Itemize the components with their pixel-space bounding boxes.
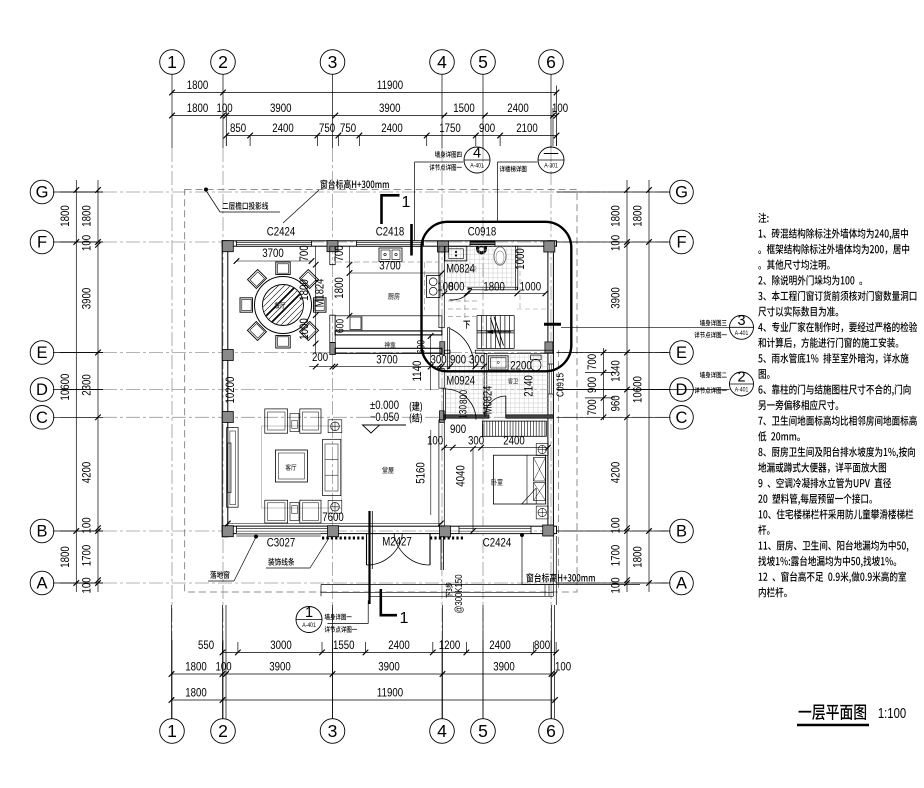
svg-text:2100: 2100 bbox=[516, 122, 538, 135]
svg-text:850: 850 bbox=[230, 122, 246, 135]
label M1824 rotated bbox=[313, 279, 326, 308]
staircase break line bbox=[491, 317, 504, 348]
svg-text:550: 550 bbox=[198, 639, 214, 652]
svg-text:2400: 2400 bbox=[388, 639, 410, 652]
axis bubbles 1-6 bottom bbox=[160, 719, 564, 744]
svg-text:5: 5 bbox=[478, 52, 488, 72]
svg-text:1800: 1800 bbox=[59, 205, 72, 227]
dining width dim 3700 bbox=[234, 247, 315, 264]
eave projection label bbox=[222, 202, 268, 210]
svg-text:G: G bbox=[36, 184, 49, 202]
guest bathroom floor tile grid bbox=[444, 353, 548, 414]
shrine label bbox=[385, 342, 396, 349]
svg-text:A: A bbox=[36, 575, 47, 593]
kitchen west rotated dims 700 1800 bbox=[333, 245, 352, 318]
second floor eave projection dashed outline bbox=[185, 190, 577, 593]
guest bath toilet bbox=[531, 355, 542, 371]
svg-text:3900: 3900 bbox=[379, 102, 401, 115]
svg-text:1700: 1700 bbox=[609, 545, 622, 567]
svg-text:10200: 10200 bbox=[224, 377, 237, 404]
svg-text:2400: 2400 bbox=[381, 122, 403, 135]
top dimension chain row 2 (1800 100 3900 3900 1500 2400 100) bbox=[169, 102, 568, 118]
svg-text:1: 1 bbox=[167, 721, 177, 741]
svg-text:M0824: M0824 bbox=[481, 386, 494, 415]
svg-text:A: A bbox=[676, 575, 687, 593]
bedroom west wall grid4 bbox=[439, 420, 444, 526]
interior wall grid3 upper segment bbox=[330, 246, 335, 265]
svg-text:800: 800 bbox=[534, 639, 550, 652]
hall north wall (shrine south) bbox=[335, 348, 442, 353]
column grid2/E bbox=[222, 350, 233, 361]
kitchen counter dashed edge bbox=[336, 262, 440, 310]
column grid3 at shrine bbox=[330, 343, 336, 355]
drawing title bbox=[799, 704, 866, 720]
top bathroom east wall bbox=[515, 246, 517, 290]
exterior wall right along grid 6 bbox=[548, 241, 554, 534]
kitchen south wall bbox=[335, 331, 442, 335]
dim 900 corridor bbox=[450, 423, 466, 436]
dotted decor strip right of entry bbox=[430, 537, 465, 540]
window C0918 top wall bbox=[470, 241, 495, 246]
porch wall stub below grid4 bbox=[441, 536, 444, 570]
window C2418 top wall bbox=[357, 241, 424, 246]
svg-text:3700: 3700 bbox=[376, 353, 398, 366]
dim 200 at shrine left bbox=[309, 351, 335, 369]
svg-text:800: 800 bbox=[448, 280, 464, 293]
right dimension mini chain (700 900 700) bbox=[585, 348, 615, 420]
column grid6/E half bbox=[545, 342, 553, 353]
svg-text:5160: 5160 bbox=[414, 462, 427, 484]
column grid2/B bbox=[222, 526, 233, 537]
porch steps right bbox=[545, 585, 549, 597]
dim 2200 guest bath bbox=[510, 359, 532, 372]
svg-text:@300K150: @300K150 bbox=[453, 574, 464, 613]
svg-text:E: E bbox=[676, 344, 687, 362]
stair west wall grid4 middle segment bbox=[439, 369, 444, 389]
column grid3/F bbox=[327, 241, 338, 252]
svg-text:1000: 1000 bbox=[514, 248, 527, 270]
callout 4 leader line bbox=[415, 162, 464, 241]
dim 1000 rotated top bath right bbox=[514, 248, 527, 270]
callout bubble A-301 stairs bbox=[538, 146, 564, 174]
kitchen lower counter with basin bbox=[335, 316, 442, 331]
svg-text:C2418: C2418 bbox=[376, 225, 404, 238]
left dimension outer chain (1800 10600 1800) bbox=[59, 180, 79, 592]
svg-text:1800: 1800 bbox=[185, 686, 207, 699]
living room label bbox=[286, 464, 297, 471]
svg-text:700: 700 bbox=[586, 354, 599, 370]
column grid4 at D bbox=[439, 411, 444, 423]
axis bubbles A-G right bbox=[670, 180, 694, 595]
svg-text:100: 100 bbox=[215, 660, 231, 673]
window label C2424 bottom bbox=[483, 536, 511, 549]
svg-text:7600: 7600 bbox=[322, 511, 344, 524]
svg-text:1800: 1800 bbox=[59, 546, 72, 568]
floor lamp top bbox=[328, 420, 342, 433]
svg-text:1800: 1800 bbox=[483, 280, 505, 293]
svg-text:F: F bbox=[676, 234, 686, 252]
column grid2/C bbox=[222, 412, 233, 423]
guest bath sink bbox=[488, 356, 508, 370]
exterior wall bottom along B bbox=[222, 526, 556, 533]
svg-text:3900: 3900 bbox=[609, 287, 622, 309]
label C0915 rotated right wall bbox=[553, 373, 565, 397]
svg-text:4: 4 bbox=[437, 52, 447, 72]
svg-text:100: 100 bbox=[80, 577, 93, 593]
window label C2418 top bbox=[376, 225, 404, 238]
sofa side table bottom bbox=[290, 503, 299, 521]
svg-text:900: 900 bbox=[586, 377, 599, 393]
dim 4040 rotated bedroom bbox=[454, 446, 475, 534]
sill height note top bbox=[321, 179, 389, 188]
bottom dimension chain row 1 (550 3000 1550 2400 1200 2400 800) bbox=[198, 639, 559, 655]
sill height note bottom bbox=[527, 573, 595, 582]
dim 3700 under shrine bbox=[332, 353, 442, 369]
svg-text:3900: 3900 bbox=[493, 660, 515, 673]
exterior wall top along F bbox=[222, 241, 556, 246]
svg-text:1750: 1750 bbox=[439, 122, 461, 135]
floor lamp bottom bbox=[328, 500, 342, 513]
callout bubble 3/A-401 right bbox=[730, 313, 754, 340]
porch step note rotated bbox=[453, 574, 464, 613]
svg-text:1340: 1340 bbox=[609, 360, 622, 382]
staircase treads bbox=[477, 316, 514, 349]
svg-text:100: 100 bbox=[216, 102, 232, 115]
guest bath label bbox=[508, 378, 518, 384]
staircase direction arrow and down label bbox=[487, 330, 511, 334]
TV cabinet bbox=[227, 428, 239, 508]
svg-text:A-401: A-401 bbox=[735, 387, 748, 394]
kitchen sink bbox=[379, 248, 402, 262]
notes text block bbox=[758, 213, 768, 223]
svg-text:B: B bbox=[676, 523, 687, 541]
callout A-301 leader bbox=[497, 162, 537, 222]
exterior wall left along grid 2 bbox=[222, 241, 228, 537]
dim row 300 900 300 under stair bbox=[430, 353, 486, 369]
svg-text:5: 5 bbox=[478, 721, 488, 741]
svg-text:1550: 1550 bbox=[333, 639, 355, 652]
svg-text:100: 100 bbox=[609, 235, 622, 251]
svg-text:—: — bbox=[544, 146, 559, 162]
svg-text:1140: 1140 bbox=[411, 361, 424, 382]
svg-text:100: 100 bbox=[552, 102, 568, 115]
stair detail rounded bubble bbox=[422, 222, 572, 371]
svg-text:3: 3 bbox=[328, 52, 338, 72]
svg-text:130: 130 bbox=[458, 404, 470, 419]
decorative sill band under C3027 bbox=[237, 534, 321, 537]
window label C2424 top bbox=[267, 225, 295, 238]
svg-text:750: 750 bbox=[340, 122, 356, 135]
sofa single bottom-left bbox=[265, 500, 288, 523]
sill note top leader bbox=[283, 190, 319, 223]
svg-text:4: 4 bbox=[473, 146, 481, 162]
top bathroom toilet bbox=[494, 247, 506, 265]
top dimension chain row 3 (850 2400 750 750 2400 1750 900 2100) bbox=[224, 122, 560, 146]
bottom extension lines bbox=[172, 605, 555, 719]
svg-text:A-301: A-301 bbox=[544, 163, 557, 170]
svg-text:D: D bbox=[36, 381, 48, 399]
svg-text:E: E bbox=[36, 344, 47, 362]
svg-text:C: C bbox=[676, 409, 688, 427]
svg-text:3: 3 bbox=[328, 721, 338, 741]
svg-text:1:100: 1:100 bbox=[878, 705, 906, 722]
svg-text:800: 800 bbox=[458, 389, 470, 404]
svg-text:3: 3 bbox=[737, 313, 745, 329]
svg-text:C0915: C0915 bbox=[553, 373, 565, 397]
svg-text:2400: 2400 bbox=[503, 434, 525, 447]
svg-text:200: 200 bbox=[312, 351, 328, 364]
dims 800 300 rotated corridor door bbox=[458, 389, 471, 419]
svg-text:750: 750 bbox=[319, 122, 335, 135]
svg-text:C2424: C2424 bbox=[267, 225, 295, 238]
svg-text:−0.050: −0.050 bbox=[370, 411, 399, 424]
svg-text:100: 100 bbox=[80, 235, 93, 251]
svg-text:3900: 3900 bbox=[270, 102, 292, 115]
column grid2/F bbox=[222, 241, 233, 252]
living room rug outline bbox=[262, 426, 342, 508]
callout bubble 2/A-401 right bbox=[730, 370, 754, 397]
bath north wall / stair south wall bbox=[444, 350, 553, 353]
svg-text:700: 700 bbox=[586, 399, 599, 415]
guest bath west wall bbox=[484, 353, 487, 414]
svg-text:960: 960 bbox=[609, 395, 622, 411]
door M0824 top bathroom arc bbox=[450, 289, 472, 300]
svg-text:M1824: M1824 bbox=[313, 279, 326, 308]
svg-text:3900: 3900 bbox=[269, 660, 291, 673]
svg-text:B: B bbox=[36, 523, 47, 541]
label M0924 corridor bbox=[446, 374, 475, 387]
callout bubble 1/A-401 bottom bbox=[296, 605, 322, 633]
top bathroom label bbox=[467, 266, 476, 271]
svg-text:A-401: A-401 bbox=[302, 623, 315, 630]
bed bbox=[493, 455, 545, 504]
svg-text:3700: 3700 bbox=[262, 247, 284, 260]
window label C3027 bbox=[267, 536, 295, 549]
entry door M2427 double leaves and arcs bbox=[367, 533, 431, 565]
svg-text:2400: 2400 bbox=[272, 122, 294, 135]
svg-text:2: 2 bbox=[218, 721, 228, 741]
kitchen width dim 3700 bbox=[347, 259, 445, 275]
svg-text:6: 6 bbox=[546, 52, 556, 72]
svg-text:1800: 1800 bbox=[187, 102, 209, 115]
svg-text:C: C bbox=[36, 409, 48, 427]
svg-text:4200: 4200 bbox=[609, 462, 622, 484]
svg-text:2300: 2300 bbox=[80, 374, 93, 396]
interior wall grid3 lower segment bbox=[330, 315, 335, 342]
nightstand lamp top bbox=[536, 444, 548, 456]
kitchen stove with burners bbox=[427, 276, 441, 298]
label M0824 rotated bedroom door bbox=[481, 386, 494, 415]
column grid4/B bbox=[440, 526, 451, 537]
column grid4/F bbox=[438, 241, 449, 252]
svg-text:11900: 11900 bbox=[377, 686, 403, 699]
column grid4 at E bbox=[440, 342, 445, 355]
svg-text:1800: 1800 bbox=[631, 546, 644, 568]
sofa single bottom-right bbox=[300, 500, 321, 523]
bedroom north wall bbox=[444, 415, 553, 418]
callout 2 leader line bbox=[557, 389, 730, 391]
svg-text:1800: 1800 bbox=[631, 205, 644, 227]
right dimension outer chain (1800 10600 1800) bbox=[631, 180, 651, 592]
staircase center rail bbox=[477, 331, 514, 333]
svg-text:1800: 1800 bbox=[333, 277, 346, 299]
stair west wall grid4 upper bbox=[439, 246, 444, 328]
dim 2140 rotated guest bath bbox=[523, 375, 536, 397]
dim 600 rotated at kitchen counter bbox=[335, 318, 347, 333]
extension doubles near grid2 and grid6 top bbox=[226, 86, 556, 147]
svg-text:600: 600 bbox=[335, 318, 347, 333]
window label C0918 bbox=[468, 225, 496, 238]
right extension lines bbox=[557, 192, 669, 583]
decor trim label bbox=[268, 558, 294, 566]
svg-text:2: 2 bbox=[218, 52, 228, 72]
svg-text:300: 300 bbox=[468, 434, 484, 447]
svg-text:700: 700 bbox=[298, 245, 311, 261]
window C3027 bottom wall bbox=[237, 526, 330, 533]
svg-text:1: 1 bbox=[167, 52, 177, 72]
svg-text:M0924: M0924 bbox=[446, 374, 475, 387]
svg-text:1500: 1500 bbox=[453, 102, 475, 115]
svg-text:11900: 11900 bbox=[377, 79, 403, 92]
svg-text:900: 900 bbox=[450, 423, 466, 436]
svg-text:300: 300 bbox=[430, 353, 446, 366]
door M0924 stair room leaf and arc bbox=[448, 328, 474, 369]
dining round table with glass hatch bbox=[229, 275, 337, 335]
svg-text:1000: 1000 bbox=[298, 318, 311, 340]
dining label bbox=[275, 302, 286, 308]
svg-text:1: 1 bbox=[400, 610, 409, 627]
svg-text:1000: 1000 bbox=[520, 280, 542, 293]
bedroom closet with hatch bbox=[482, 421, 546, 436]
svg-text:F: F bbox=[37, 234, 47, 252]
dining chairs around table bbox=[240, 262, 326, 348]
sofa single top-left bbox=[265, 409, 288, 433]
svg-text:2: 2 bbox=[737, 370, 745, 386]
label M2427 entry bbox=[382, 535, 412, 548]
callout 1 leader line bbox=[328, 601, 369, 624]
svg-text:1: 1 bbox=[305, 605, 313, 621]
svg-text:3000: 3000 bbox=[270, 639, 292, 652]
column grid6/B bbox=[543, 525, 554, 536]
svg-text:1800: 1800 bbox=[187, 79, 209, 92]
hall label bbox=[382, 467, 393, 474]
sofa single top-right bbox=[300, 409, 321, 433]
axis bubbles A-G left bbox=[30, 180, 54, 595]
svg-text:G: G bbox=[675, 184, 688, 202]
svg-text:1800: 1800 bbox=[80, 205, 93, 227]
bedroom label bbox=[492, 479, 503, 486]
porch terrace lines bbox=[321, 536, 556, 605]
section cut line top bbox=[410, 224, 413, 256]
column grid3/B bbox=[328, 526, 339, 537]
callout bubble 4/A-401 top bbox=[464, 146, 490, 174]
svg-text:1200: 1200 bbox=[439, 639, 461, 652]
svg-text:D: D bbox=[676, 381, 688, 399]
window C0915 right wall bbox=[548, 364, 554, 394]
long sofa right bbox=[323, 439, 341, 495]
svg-text:300: 300 bbox=[469, 353, 485, 366]
right dimension inner chain (1800 100 3900 1340 960 4200 100 1700 100) bbox=[609, 180, 629, 594]
bottom dimension chain row 2 (1800 100 3900 3900 3900 100) bbox=[169, 660, 571, 676]
svg-text:1: 1 bbox=[402, 194, 411, 211]
section mark 1 top bbox=[382, 194, 411, 224]
bedroom top dim row 100 300 2400 bbox=[427, 434, 551, 450]
stair room dim row 100 800 1800 1000 bbox=[437, 280, 548, 296]
top bathroom floor tile grid bbox=[447, 246, 515, 287]
svg-text:4200: 4200 bbox=[80, 462, 93, 484]
label M0824 top bathroom bbox=[446, 262, 475, 275]
callout 3 leader line bbox=[544, 324, 730, 327]
svg-text:1800: 1800 bbox=[609, 205, 622, 227]
svg-text:1700: 1700 bbox=[80, 545, 93, 567]
svg-text:A-401: A-401 bbox=[735, 330, 748, 337]
window C2424 bottom wall (bedroom) bbox=[459, 526, 531, 533]
svg-text:3700: 3700 bbox=[379, 259, 401, 272]
svg-text:2140: 2140 bbox=[523, 375, 536, 397]
kitchen label bbox=[388, 293, 399, 300]
urinal top bathroom bbox=[476, 246, 486, 254]
section mark 1 bottom bbox=[381, 589, 409, 627]
door M0824 bedroom leaf and arc bbox=[485, 396, 506, 417]
dim 5160 rotated hall east bbox=[414, 430, 430, 515]
nightstand lamp bottom bbox=[536, 506, 548, 519]
dining east rotated dims 700 1800 1000 bbox=[298, 245, 318, 353]
bottom dimension chain row 3 (1800 11900) bbox=[169, 686, 558, 702]
svg-text:100: 100 bbox=[609, 577, 622, 593]
left dimension inner chain (1800 100 3900 2300 4200 100 1700 100) bbox=[80, 180, 100, 594]
svg-text:900: 900 bbox=[479, 122, 495, 135]
svg-text:1800: 1800 bbox=[298, 279, 311, 301]
svg-text:C2424: C2424 bbox=[483, 536, 511, 549]
level mark +-0.000 bbox=[363, 399, 407, 433]
svg-text:C0918: C0918 bbox=[468, 225, 496, 238]
svg-text:3900: 3900 bbox=[80, 288, 93, 310]
door M0924 corridor leaf and arc bbox=[443, 388, 476, 420]
svg-text:M0824: M0824 bbox=[446, 262, 475, 275]
svg-text:A-401: A-401 bbox=[470, 163, 483, 170]
dim 7600 hall bottom bbox=[225, 511, 444, 526]
svg-text:10600: 10600 bbox=[59, 374, 72, 401]
svg-text:700: 700 bbox=[333, 245, 346, 261]
coffee table bbox=[275, 450, 307, 482]
svg-text:M2427: M2427 bbox=[382, 535, 412, 548]
svg-text:2400: 2400 bbox=[507, 102, 529, 115]
top dimension chain row 1 (1800 11900) bbox=[169, 79, 559, 95]
axis grid horizontal lines A-G bbox=[53, 192, 671, 583]
dim 600 and 1140 rotated right of shrine bbox=[411, 333, 433, 390]
svg-text:900: 900 bbox=[450, 353, 466, 366]
svg-text:6: 6 bbox=[546, 721, 556, 741]
svg-text:100: 100 bbox=[427, 434, 443, 447]
column grid6/F bbox=[544, 241, 555, 252]
window C2424 top wall bbox=[237, 241, 312, 246]
svg-text:4: 4 bbox=[437, 721, 447, 741]
dim 10200 rotated dining interior bbox=[224, 377, 237, 404]
opening M1824 jambs in grid3 wall bbox=[330, 265, 335, 316]
svg-text:1800: 1800 bbox=[185, 660, 207, 673]
svg-text:2400: 2400 bbox=[489, 639, 511, 652]
section cut line bottom bbox=[370, 511, 373, 604]
top bathroom partition wall bbox=[468, 287, 517, 290]
axis bubbles 1-6 top bbox=[160, 50, 564, 75]
svg-text:4040: 4040 bbox=[454, 465, 467, 487]
full-height window label bbox=[210, 571, 229, 579]
svg-text:C3027: C3027 bbox=[267, 536, 295, 549]
axis grid vertical lines 1-6 bbox=[172, 75, 551, 719]
staircase landing dashed lines bbox=[448, 247, 547, 318]
left extension lines bbox=[60, 192, 103, 583]
dotted decor strip left of entry bbox=[322, 537, 364, 540]
